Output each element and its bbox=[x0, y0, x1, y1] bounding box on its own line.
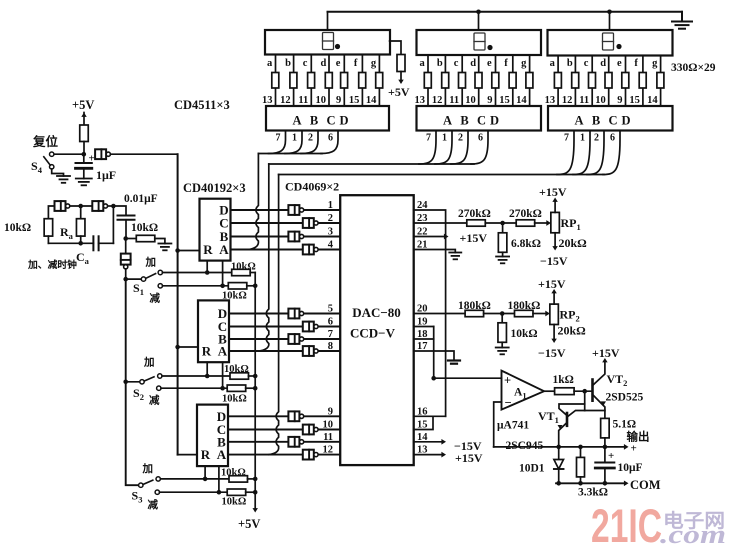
capacitor 1uF bbox=[76, 162, 92, 164]
potentiometer RP1 20k bbox=[551, 212, 560, 232]
svg-text:6: 6 bbox=[328, 317, 333, 328]
node VT2 base junction bbox=[582, 389, 587, 394]
svg-text:A: A bbox=[574, 114, 583, 128]
resistor 330ohm d1 bbox=[325, 73, 332, 89]
wire S1up to rail bbox=[250, 272, 255, 274]
node rail S3dn bbox=[253, 490, 258, 495]
svg-text:CD4511×3: CD4511×3 bbox=[174, 98, 230, 112]
svg-text:c: c bbox=[303, 58, 308, 69]
counter U5 CD40192 box bbox=[198, 300, 229, 362]
resistor 330ohm e3 bbox=[622, 73, 629, 89]
emitter arrow VT2 bbox=[601, 401, 606, 405]
svg-text:COM: COM bbox=[630, 478, 661, 492]
wire up-clock stub U5 bbox=[206, 362, 208, 376]
wire output D U4 to inverter bbox=[231, 209, 341, 211]
node 270k junction bbox=[500, 221, 505, 226]
svg-text:−15V: −15V bbox=[538, 346, 566, 360]
svg-text:0.01μF: 0.01μF bbox=[124, 193, 158, 205]
DAC U7 DAC-80 CCD-V box bbox=[340, 195, 414, 465]
svg-text:10kΩ: 10kΩ bbox=[511, 328, 538, 340]
ground top right bbox=[672, 21, 692, 23]
node rail S1dn bbox=[253, 284, 258, 289]
wire segment g DS1 bbox=[378, 55, 380, 107]
resistor 10k osc left bbox=[44, 219, 53, 236]
svg-text:a: a bbox=[550, 58, 556, 69]
svg-text:10kΩ: 10kΩ bbox=[131, 222, 158, 234]
resistor 330ohm c3 bbox=[589, 73, 596, 89]
node clock S1 bbox=[123, 277, 128, 282]
wire 10k to rail bbox=[47, 236, 49, 243]
svg-text:7: 7 bbox=[564, 133, 569, 144]
wire base node to VT2 emitter node bbox=[585, 410, 605, 412]
wire bus H2 decoder U2 to counter U5 bbox=[269, 163, 474, 165]
wire pin18 bracket bbox=[414, 338, 434, 340]
svg-text:10: 10 bbox=[316, 95, 327, 106]
ground S4 bbox=[57, 175, 70, 177]
svg-text:c: c bbox=[584, 58, 589, 69]
svg-text:10D1: 10D1 bbox=[519, 463, 545, 475]
resistor 330ohm g2 bbox=[526, 73, 533, 89]
svg-text:g: g bbox=[652, 58, 658, 69]
wire output A U4 to inverter bbox=[231, 249, 341, 251]
potentiometer RP2 20k bbox=[550, 304, 559, 324]
inverter clock driver bbox=[121, 254, 131, 265]
wire output B U5 to inverter bbox=[229, 338, 340, 340]
wire diode 10D1 top bbox=[558, 447, 560, 460]
svg-text:CD40192×3: CD40192×3 bbox=[183, 181, 246, 195]
resistor 330ohm g3 bbox=[657, 73, 664, 89]
inverter G1 bbox=[55, 201, 66, 211]
COM arrow bbox=[624, 480, 629, 486]
wire DS1 to +5V resistor bbox=[390, 41, 401, 55]
svg-text:e: e bbox=[487, 58, 492, 69]
inverter gate 2 bbox=[303, 218, 314, 228]
svg-text:11: 11 bbox=[579, 95, 589, 106]
decimal point DS2 bbox=[487, 45, 492, 50]
svg-text:270kΩ: 270kΩ bbox=[458, 208, 491, 220]
svg-text:10kΩ: 10kΩ bbox=[222, 497, 247, 508]
svg-text:f: f bbox=[634, 58, 638, 69]
node 3.3k on COM bbox=[578, 481, 583, 486]
resistor Ra bbox=[76, 219, 85, 236]
node op-amp input junction bbox=[431, 376, 436, 381]
svg-text:9: 9 bbox=[336, 95, 341, 106]
wire segment e DS3 bbox=[625, 56, 627, 107]
svg-text:9: 9 bbox=[328, 406, 333, 417]
svg-text:.com: .com bbox=[660, 520, 726, 549]
wire segment d DS1 bbox=[328, 55, 330, 107]
inverter gate 12 bbox=[303, 450, 314, 460]
svg-text:5.1Ω: 5.1Ω bbox=[613, 419, 637, 431]
wire 6.8k to ground bbox=[502, 252, 504, 256]
wire segment d DS2 bbox=[478, 55, 480, 106]
svg-text:R: R bbox=[203, 242, 213, 257]
wire clock vertical lower bbox=[126, 382, 139, 485]
wiper arrow RP2 bbox=[545, 311, 550, 317]
resistor 3.3k bbox=[577, 457, 585, 477]
wire 6.8k from junction bbox=[502, 223, 504, 233]
wire node B down bbox=[112, 206, 114, 243]
svg-text:10kΩ: 10kΩ bbox=[222, 394, 247, 405]
transistor VT2 2SD525 base bar bbox=[591, 380, 594, 401]
svg-text:10kΩ: 10kΩ bbox=[231, 262, 256, 273]
digit glyph DS2 bbox=[474, 33, 485, 50]
svg-text:减: 减 bbox=[148, 498, 159, 511]
resistor 10k S3up bbox=[229, 476, 248, 482]
wire 10k from 180k junction bbox=[501, 314, 503, 323]
svg-text:10: 10 bbox=[323, 420, 334, 431]
wire segment e DS2 bbox=[495, 55, 497, 106]
pin 6 U2 lead curve bbox=[471, 131, 488, 165]
wire S1 pole bbox=[126, 278, 142, 280]
svg-text:B: B bbox=[460, 114, 468, 128]
svg-text:14: 14 bbox=[647, 95, 658, 106]
wire osc bottom rail left bbox=[48, 242, 93, 244]
wire 3.3k bottom bbox=[580, 477, 582, 483]
resistor 330ohm d2 bbox=[475, 73, 482, 89]
pin 6 U3 lead curve bbox=[603, 131, 620, 175]
wire feedback from minus input bbox=[494, 402, 502, 447]
wire S2dn to rail bbox=[246, 387, 256, 389]
svg-text:2: 2 bbox=[308, 133, 313, 144]
wire output B U6 to inverter bbox=[228, 441, 340, 443]
svg-text:B: B bbox=[310, 114, 318, 128]
svg-text:+15V: +15V bbox=[539, 185, 567, 199]
wire S2 up row bbox=[162, 375, 230, 377]
switch S3 pole contact bbox=[139, 483, 143, 487]
resistor 330ohm dp bbox=[397, 55, 405, 72]
node bus-DS2 junction bbox=[476, 10, 481, 15]
svg-text:1: 1 bbox=[292, 133, 297, 144]
wire bus V3 to counter U6 with hops bbox=[269, 175, 278, 455]
wire 10uF bottom bbox=[604, 468, 606, 483]
resistor 330ohm d3 bbox=[605, 73, 612, 89]
wire segment f DS3 bbox=[642, 56, 644, 107]
decoder U1 CD4511 BCD box bbox=[266, 106, 389, 131]
wire to op-amp noninverting input bbox=[434, 377, 502, 379]
svg-text:g: g bbox=[371, 58, 377, 69]
wire osc bottom rail right bbox=[99, 242, 114, 244]
wire reset R U5 bbox=[178, 346, 198, 348]
wire segment b DS3 bbox=[574, 56, 576, 107]
svg-text:2: 2 bbox=[458, 133, 463, 144]
svg-text:3: 3 bbox=[328, 227, 333, 238]
svg-text:13: 13 bbox=[415, 95, 426, 106]
switch S3 up contact bbox=[156, 477, 160, 481]
svg-text:10kΩ: 10kΩ bbox=[4, 222, 31, 234]
wire bus drop to display DS3 bbox=[609, 12, 611, 30]
svg-text:12: 12 bbox=[323, 445, 334, 456]
svg-text:复位: 复位 bbox=[32, 134, 59, 149]
svg-text:减: 减 bbox=[149, 394, 160, 407]
resistor 1k bbox=[555, 388, 575, 395]
svg-text:d: d bbox=[321, 58, 327, 69]
display DS2 7-segment LED bbox=[417, 30, 542, 55]
svg-text:C: C bbox=[326, 114, 335, 128]
wire segment c DS2 bbox=[461, 55, 463, 106]
svg-text:输出: 输出 bbox=[627, 430, 650, 444]
wire 270k to RP1 wiper bbox=[535, 222, 547, 224]
capacitor 10uF bbox=[595, 462, 614, 464]
wire S3dn to rail bbox=[246, 491, 256, 493]
svg-text:1kΩ: 1kΩ bbox=[553, 374, 574, 386]
wire segment g DS2 bbox=[529, 55, 531, 106]
node rail S2up bbox=[253, 374, 258, 379]
wire segment g DS3 bbox=[660, 56, 662, 107]
counter U6 CD40192 box bbox=[197, 405, 228, 467]
wire common anode bus +5V top bbox=[328, 11, 683, 13]
wire node C to clock inverter bbox=[125, 239, 127, 254]
resistor 330ohm f1 bbox=[359, 73, 366, 89]
inverter gate 11 bbox=[288, 437, 299, 447]
inverter gate 10 bbox=[303, 425, 314, 435]
node C clock bbox=[123, 236, 128, 241]
svg-text:5: 5 bbox=[328, 304, 333, 315]
resistor 10k S1up bbox=[232, 269, 251, 275]
wire pin19 bracket bbox=[414, 326, 434, 328]
resistor 180k second bbox=[515, 310, 534, 316]
svg-text:μA741: μA741 bbox=[497, 420, 529, 432]
svg-text:9: 9 bbox=[617, 95, 622, 106]
svg-text:13: 13 bbox=[545, 95, 556, 106]
ground 10k scale bbox=[496, 347, 509, 349]
wire VT2 emitter bbox=[593, 395, 605, 419]
svg-text:A: A bbox=[443, 114, 452, 128]
node up-clock U4 bbox=[205, 270, 210, 275]
node 3.3k on rail bbox=[578, 445, 583, 450]
svg-text:2: 2 bbox=[594, 133, 599, 144]
pin 7 U3 lead curve bbox=[557, 131, 574, 175]
svg-text:4: 4 bbox=[328, 240, 334, 251]
svg-text:3.3kΩ: 3.3kΩ bbox=[578, 487, 608, 499]
wire pin17 to ground bbox=[414, 351, 454, 361]
resistor 270k second bbox=[516, 220, 535, 226]
svg-text:10kΩ: 10kΩ bbox=[221, 468, 246, 479]
pin 1 U2 lead curve bbox=[435, 131, 452, 165]
svg-text:6: 6 bbox=[328, 133, 333, 144]
wire RP1 to +15V bbox=[554, 201, 556, 212]
resistor 10k S2dn bbox=[227, 385, 246, 391]
svg-text:10kΩ: 10kΩ bbox=[222, 291, 247, 302]
resistor 10k pulse bbox=[136, 235, 155, 241]
svg-text:e: e bbox=[336, 58, 341, 69]
wire segment a DS1 bbox=[275, 55, 277, 107]
wire output C U6 to inverter bbox=[228, 429, 340, 431]
svg-text:加、减时钟: 加、减时钟 bbox=[27, 258, 77, 271]
resistor 10k scale bbox=[498, 323, 507, 343]
wire bracket vertical to op-amp bbox=[433, 327, 435, 379]
svg-text:12: 12 bbox=[562, 95, 573, 106]
wire reset vertical bbox=[177, 154, 179, 454]
wire 1k to VT2 base bbox=[574, 390, 592, 392]
capacitor 0.01uF bbox=[118, 215, 135, 217]
node 10uF on COM bbox=[603, 481, 608, 486]
wire S1 up row bbox=[163, 272, 232, 274]
display DS3 7-segment LED bbox=[548, 30, 673, 56]
svg-text:A: A bbox=[292, 114, 301, 128]
wire S1 down row bbox=[163, 285, 229, 287]
resistor 330ohm g1 bbox=[376, 73, 383, 89]
wire bus drop to display DS2 bbox=[478, 12, 480, 30]
resistor 330ohm e1 bbox=[341, 73, 348, 89]
svg-text:C: C bbox=[477, 114, 486, 128]
wiper arrow RP1 bbox=[546, 220, 551, 226]
resistor 10k S2up bbox=[230, 373, 249, 379]
svg-text:9: 9 bbox=[487, 95, 492, 106]
svg-text:10: 10 bbox=[465, 95, 476, 106]
wire bus drop to display DS1 bbox=[327, 12, 329, 30]
pin 6 U1 lead curve bbox=[321, 131, 338, 154]
wire segment b DS2 bbox=[444, 55, 446, 106]
resistor 330ohm c2 bbox=[459, 73, 466, 89]
pin 1 U1 lead curve bbox=[285, 131, 302, 154]
wire S2 down row bbox=[161, 387, 227, 389]
switch S1 blade bbox=[146, 274, 156, 279]
wire VT1 collector bbox=[567, 411, 585, 418]
svg-text:C: C bbox=[608, 114, 617, 128]
wire S3up to rail bbox=[248, 478, 256, 480]
wire S4 to ground bbox=[52, 169, 64, 176]
wire output A U6 to inverter bbox=[228, 454, 340, 456]
wire segment e DS1 bbox=[343, 55, 345, 107]
resistor 6.8k bbox=[498, 233, 507, 253]
switch S1 up contact bbox=[158, 270, 162, 274]
resistor 330ohm a2 bbox=[424, 73, 431, 89]
decimal point DS1 bbox=[335, 44, 340, 49]
inverter reset buffer bbox=[95, 149, 106, 159]
wire pin14 to -15V bbox=[414, 441, 442, 443]
output arrow bbox=[624, 444, 629, 450]
wire cap to node C bbox=[125, 220, 127, 239]
resistor 330ohm b3 bbox=[572, 73, 579, 89]
wire segment d DS3 bbox=[608, 56, 610, 107]
wire node to 1uF bbox=[83, 154, 85, 163]
svg-text:d: d bbox=[470, 58, 476, 69]
node Ra rail bbox=[78, 241, 83, 246]
decoder U2 CD4511 BCD box bbox=[417, 106, 542, 131]
pin 2 U3 lead curve bbox=[587, 131, 604, 175]
svg-text:f: f bbox=[354, 58, 358, 69]
wire 1uF to ground bbox=[83, 168, 85, 178]
wire pin22 to +15V bbox=[414, 236, 445, 238]
svg-text:D: D bbox=[339, 114, 348, 128]
svg-text:11: 11 bbox=[449, 95, 459, 106]
resistor 5.1ohm bbox=[601, 418, 610, 438]
display DS1 7-segment LED bbox=[265, 30, 390, 55]
resistor 180k first bbox=[465, 310, 484, 316]
ground pulse bbox=[158, 243, 171, 245]
ground 6.8k bbox=[496, 256, 509, 258]
wire op-amp output bbox=[544, 390, 555, 392]
wire G1 input loop bbox=[48, 206, 54, 219]
wire between 180k resistors bbox=[484, 313, 515, 315]
svg-text:e: e bbox=[617, 58, 622, 69]
wire 180k to RP2 wiper bbox=[533, 313, 546, 315]
inverter gate 4 bbox=[303, 245, 314, 255]
svg-text:D: D bbox=[490, 114, 499, 128]
ground pin17 bbox=[448, 359, 460, 361]
svg-text:减: 减 bbox=[150, 292, 161, 305]
svg-text:10: 10 bbox=[595, 95, 606, 106]
wire S3 up row bbox=[160, 478, 229, 480]
wire G2 out to node B bbox=[108, 205, 114, 207]
wire 3.3k top bbox=[580, 447, 582, 458]
inverter gate 8 bbox=[303, 346, 314, 356]
svg-text:11: 11 bbox=[298, 95, 308, 106]
wire S2up to rail bbox=[249, 375, 256, 377]
emitter arrow VT1 bbox=[558, 425, 563, 429]
power +5V arrow bottom bbox=[252, 508, 257, 512]
switch S3 blade bbox=[143, 480, 153, 484]
switch S1 down contact bbox=[158, 284, 162, 288]
svg-text:DAC−80: DAC−80 bbox=[352, 305, 401, 320]
wire node C to 10k bbox=[126, 238, 137, 240]
ground 1uF bbox=[76, 178, 92, 180]
wire bus V1 to counter U4 with hops bbox=[249, 154, 258, 250]
wire output D U5 to inverter bbox=[229, 313, 340, 315]
node 180k junction bbox=[500, 311, 505, 316]
svg-text:1: 1 bbox=[328, 200, 333, 211]
svg-text:c: c bbox=[454, 58, 459, 69]
node reset bbox=[82, 152, 87, 157]
svg-text:+: + bbox=[504, 374, 511, 388]
wire output C U4 to inverter bbox=[231, 222, 341, 224]
wire RP1 to -15V bbox=[554, 233, 556, 247]
wire COM rail bbox=[556, 482, 625, 484]
op-amp A1 uA741 bbox=[502, 371, 545, 410]
svg-text:10kΩ: 10kΩ bbox=[224, 364, 249, 375]
svg-text:a: a bbox=[420, 58, 426, 69]
switch S2 pole contact bbox=[140, 380, 144, 384]
decoder U3 CD4511 BCD box bbox=[548, 106, 673, 131]
svg-text:10μF: 10μF bbox=[618, 462, 643, 474]
inverter gate 1 bbox=[288, 205, 299, 215]
switch S2 up contact bbox=[158, 374, 162, 378]
wire output rail bbox=[494, 446, 625, 448]
wire +5V rail bbox=[254, 273, 256, 509]
svg-text:+5V: +5V bbox=[238, 517, 260, 531]
svg-text:CD4069×2: CD4069×2 bbox=[285, 180, 339, 194]
wire 10k to ground bbox=[155, 239, 165, 244]
svg-text:CCD−V: CCD−V bbox=[350, 326, 396, 341]
wire diode bottom bbox=[558, 469, 560, 483]
svg-text:g: g bbox=[521, 58, 527, 69]
pin 7 U1 lead curve bbox=[269, 131, 286, 154]
digit glyph DS3 bbox=[603, 33, 614, 50]
switch S4 blade bbox=[44, 157, 51, 165]
wire pin21 to ground bbox=[414, 250, 456, 253]
node up-clock U5 bbox=[205, 374, 210, 379]
node A oscillator bbox=[78, 204, 83, 209]
wire bus H1 decoder U1 to counter U4 bbox=[258, 153, 322, 155]
decimal point DS3 bbox=[616, 44, 621, 49]
svg-text:加: 加 bbox=[145, 256, 157, 269]
svg-text:+15V: +15V bbox=[455, 451, 483, 465]
diode 10D1 bbox=[554, 460, 564, 470]
resistor 330ohm a3 bbox=[554, 73, 561, 89]
wire S3 down row bbox=[160, 491, 228, 493]
svg-text:6: 6 bbox=[610, 133, 615, 144]
ground pin21 bbox=[449, 252, 461, 254]
svg-text:11: 11 bbox=[323, 432, 333, 443]
svg-text:15: 15 bbox=[349, 95, 360, 106]
node bus-DS3 junction bbox=[607, 10, 612, 15]
svg-text:+15V: +15V bbox=[592, 346, 620, 360]
svg-text:加: 加 bbox=[142, 462, 154, 475]
capacitor Ca bbox=[92, 236, 94, 250]
svg-text:1μF: 1μF bbox=[96, 168, 116, 182]
wire reset node to S4 bbox=[54, 153, 84, 155]
